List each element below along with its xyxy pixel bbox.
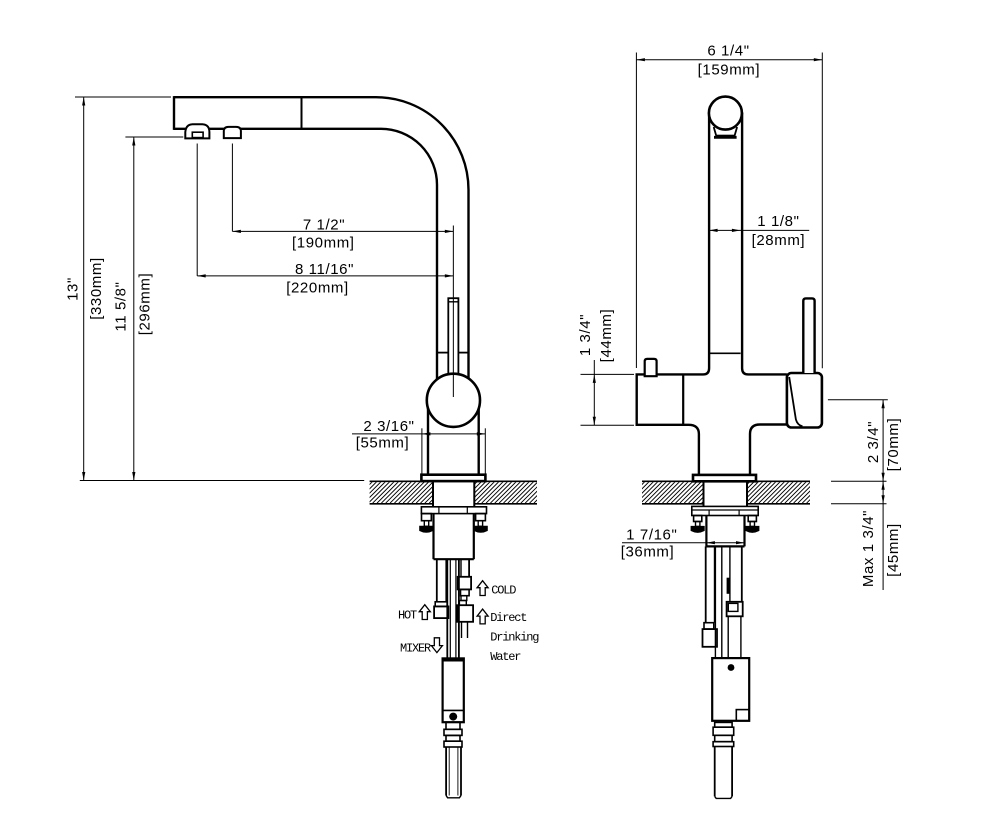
dim 1 1/8 line <box>709 229 809 231</box>
aerator dome 1 inner rect <box>192 132 203 137</box>
shank walls through deck <box>432 481 434 507</box>
dim 2 3/16 line <box>352 433 485 435</box>
hot fitting <box>435 602 447 607</box>
arrow down mixer <box>431 638 442 653</box>
dim 1 3/4 ext lines <box>581 373 635 375</box>
riser pipe right side and right arm outline <box>742 113 787 375</box>
dim 13in line <box>83 97 85 481</box>
svg-text:2 3/4": 2 3/4" <box>865 421 882 463</box>
bolt right shaft <box>750 522 754 527</box>
bolt left shaft <box>696 522 700 527</box>
svg-text:MIXER: MIXER <box>400 642 431 656</box>
DIMENSIONS GROUP <box>65 43 903 591</box>
bolt left shaft <box>424 521 428 527</box>
cold fitting <box>458 577 471 590</box>
bolt right nut <box>476 514 486 521</box>
svg-text:6 1/4": 6 1/4" <box>707 43 749 60</box>
bolt right head <box>474 526 487 532</box>
cold supply tube <box>460 559 462 577</box>
block notch <box>736 710 749 721</box>
arrow up cold <box>477 581 488 596</box>
arrow up direct <box>477 609 488 624</box>
bolt right shaft <box>478 521 482 527</box>
right tube lower <box>727 616 729 658</box>
handle housing <box>787 373 822 428</box>
dim 6 1/4 line <box>636 59 822 61</box>
svg-text:Water: Water <box>490 650 521 664</box>
spout outer contour <box>174 97 469 383</box>
bolt right nut <box>748 516 756 522</box>
handle housing front line <box>789 377 802 426</box>
shank body below washer <box>705 516 707 547</box>
spout head joint line <box>301 97 303 129</box>
deck top line <box>642 480 810 482</box>
bolt left head <box>420 526 433 532</box>
spout inner contour (underside) <box>174 129 437 383</box>
spout head left edge <box>173 96 175 130</box>
hot supply tube <box>436 559 438 602</box>
svg-text:[28mm]: [28mm] <box>752 232 806 249</box>
direct water fitting <box>459 601 466 606</box>
deck bottom lines <box>370 503 433 505</box>
body below deck <box>432 514 434 560</box>
dim 7 1/2 line <box>232 230 453 232</box>
direct water stub <box>461 622 463 638</box>
svg-text:[55mm]: [55mm] <box>356 435 410 452</box>
svg-text:[296mm]: [296mm] <box>137 273 154 336</box>
dim 6 1/4 ext lines <box>635 53 637 369</box>
svg-text:[159mm]: [159mm] <box>698 62 761 79</box>
base flange <box>693 475 756 481</box>
mixer connector block <box>443 658 464 722</box>
aerator dome 1 <box>185 124 209 138</box>
dim 2 3/16 ext lines <box>421 428 423 473</box>
svg-text:1 3/4": 1 3/4" <box>577 314 594 356</box>
bolt left head <box>691 526 704 532</box>
aerator dome 2 <box>224 127 241 138</box>
deck ext lines right <box>831 480 887 482</box>
ext line deck level left <box>80 480 364 482</box>
right fitting <box>727 602 743 617</box>
left elbow fitting <box>704 623 714 629</box>
body below ball <box>427 406 429 475</box>
handle level leader <box>828 399 888 401</box>
shank walls through deck <box>703 481 705 506</box>
dim 1 3/4 line <box>593 360 595 425</box>
svg-text:[220mm]: [220mm] <box>286 280 349 297</box>
svg-text:[70mm]: [70mm] <box>885 418 902 472</box>
ext line aerator2 <box>231 144 233 232</box>
left arm joint line <box>682 374 684 424</box>
ball joint <box>427 374 480 427</box>
mixer hose tube <box>714 546 716 658</box>
RIGHT VIEW GROUP <box>619 97 834 799</box>
svg-text:2 3/16": 2 3/16" <box>363 418 414 435</box>
bolt left nut <box>694 516 702 522</box>
dim 2 3/4 and max line <box>882 400 884 590</box>
svg-text:HOT: HOT <box>398 609 417 623</box>
outlet hose <box>714 747 716 797</box>
centerline <box>452 226 454 398</box>
svg-text:13": 13" <box>65 277 82 301</box>
base flange <box>421 475 485 481</box>
svg-text:1 7/16": 1 7/16" <box>626 527 677 544</box>
svg-text:8 11/16": 8 11/16" <box>295 261 354 278</box>
LEFT VIEW GROUP <box>174 96 561 798</box>
riser pipe left side and left arm outline <box>637 113 709 475</box>
ball collar <box>714 127 737 136</box>
mounting washer <box>421 507 486 514</box>
dark stop mark <box>727 578 730 594</box>
deck top line <box>370 480 537 482</box>
bolt right head <box>746 526 759 532</box>
arrow up hot <box>419 605 430 620</box>
svg-text:[44mm]: [44mm] <box>598 309 615 363</box>
dim 1 7/16 line <box>622 542 745 544</box>
pipe joint line <box>709 352 741 354</box>
ext line aerator1 <box>196 144 198 276</box>
svg-text:11 5/8": 11 5/8" <box>113 281 130 331</box>
mounting washer <box>692 506 758 515</box>
connector block <box>712 658 749 721</box>
svg-text:[36mm]: [36mm] <box>621 544 675 561</box>
mixer tube <box>446 559 448 658</box>
dim 11 5/8 line <box>133 137 135 481</box>
handle lever <box>803 298 814 373</box>
mixer block pin <box>449 713 457 721</box>
block pin <box>728 664 735 671</box>
ball top <box>709 97 742 130</box>
svg-text:Direct: Direct <box>490 611 526 625</box>
bolt left nut <box>422 514 432 521</box>
svg-text:Drinking: Drinking <box>490 631 539 645</box>
svg-text:COLD: COLD <box>491 584 516 598</box>
pipe joint line <box>437 352 448 354</box>
svg-text:[190mm]: [190mm] <box>292 235 355 252</box>
right tube <box>729 546 731 601</box>
hose neck ribs <box>446 722 460 729</box>
LABELS GROUP <box>398 581 539 664</box>
left tube <box>705 546 707 622</box>
svg-text:[330mm]: [330mm] <box>88 257 105 320</box>
dim 8 11/16 line <box>197 275 453 277</box>
svg-text:Max 1 3/4": Max 1 3/4" <box>860 510 877 587</box>
drinking spout stub <box>645 359 657 376</box>
svg-text:1 1/8": 1 1/8" <box>757 213 799 230</box>
hose neck ribs <box>715 722 732 727</box>
pull-out hose cap <box>448 298 458 374</box>
ext line aerator level <box>125 136 183 138</box>
outlet hose <box>445 747 447 796</box>
svg-text:[45mm]: [45mm] <box>885 523 902 577</box>
deck bottom lines <box>642 503 704 505</box>
ext line spout top <box>75 96 171 98</box>
svg-text:7 1/2": 7 1/2" <box>303 216 345 233</box>
